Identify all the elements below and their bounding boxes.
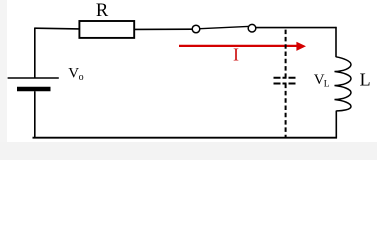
capacitor top plate (dashed) xyxy=(274,77,296,79)
dashed line upper (top wire down to capacitor top plate) xyxy=(285,29,287,78)
switch contact circle 2 xyxy=(248,24,256,32)
svg-text:L: L xyxy=(324,80,330,90)
wire switch to top-right corner xyxy=(256,27,337,29)
wire bottom horizontal xyxy=(33,137,338,139)
current arrow I xyxy=(179,45,298,47)
battery V0 bottom plate (short thick, negative) xyxy=(17,87,51,91)
svg-text:I: I xyxy=(233,45,239,65)
resistor R xyxy=(79,21,134,38)
dashed line lower (capacitor bottom plate down to bottom wire) xyxy=(285,84,287,138)
left gray margin strip xyxy=(0,0,7,160)
svg-text:R: R xyxy=(96,1,109,21)
wire resistor to switch xyxy=(135,28,192,30)
switch arm xyxy=(200,26,248,28)
svg-text:V: V xyxy=(68,65,79,81)
bottom gray margin strip xyxy=(0,142,377,160)
capacitor bottom plate (dashed) xyxy=(274,83,296,85)
wire left vertical upper (corner to battery) xyxy=(34,28,36,79)
battery V0 top plate (long thin, positive) xyxy=(8,77,59,79)
inductor L coil xyxy=(335,57,352,111)
wire right vertical lower (coil to bottom wire) xyxy=(335,111,337,139)
wire right vertical upper (corner to coil) xyxy=(335,27,337,57)
wire top-left horizontal (corner to resistor) xyxy=(35,27,80,30)
wire left vertical lower (battery to bottom wire) xyxy=(34,91,36,138)
switch contact circle 1 xyxy=(192,25,200,33)
label V0 xyxy=(68,65,83,83)
svg-text:o: o xyxy=(79,72,84,83)
label VL xyxy=(314,72,330,89)
svg-text:L: L xyxy=(360,69,371,89)
